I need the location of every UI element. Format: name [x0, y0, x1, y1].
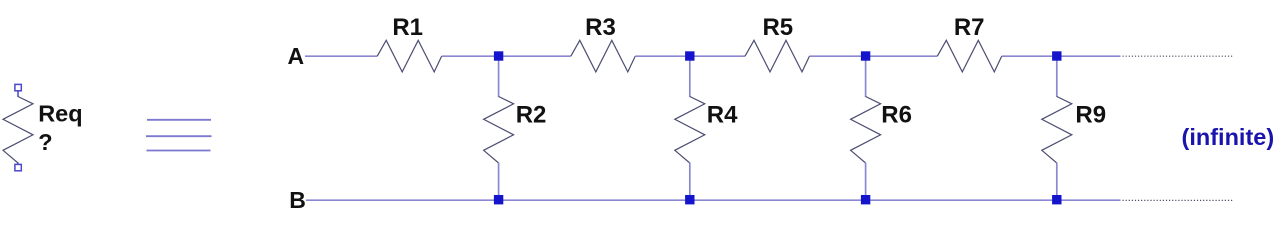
junction node 1 top	[494, 51, 503, 60]
svg-text:Req: Req	[38, 100, 82, 126]
wire R7 past node 4	[1002, 55, 1121, 57]
junction node 1 bottom	[494, 195, 503, 204]
wire R1 to R3 through node 1	[442, 55, 571, 57]
resistor R3	[571, 40, 635, 72]
resistor R5	[745, 40, 809, 72]
junction node 3 bottom	[861, 195, 870, 204]
wire R9 bottom lead	[1056, 163, 1058, 201]
wire R3 to R5 through node 2	[635, 55, 745, 57]
wire R6 bottom lead	[865, 163, 867, 201]
svg-text:R6: R6	[881, 101, 912, 128]
terminal pin top of Req	[15, 84, 21, 90]
svg-text:?: ?	[38, 129, 52, 155]
wire bottom rail B	[306, 199, 1121, 201]
resistor R6	[851, 97, 881, 164]
resistor R9	[1042, 97, 1072, 164]
svg-text:R3: R3	[585, 14, 616, 41]
wire dotted continuation bottom rail	[1123, 199, 1234, 201]
svg-text:R9: R9	[1075, 101, 1106, 128]
wire R5 to R7 through node 3	[809, 55, 937, 57]
resistor R2	[484, 97, 514, 164]
wire R4 bottom lead	[689, 163, 691, 201]
junction node 3 top	[861, 51, 870, 60]
svg-text:R1: R1	[392, 14, 423, 41]
resistor Req	[3, 97, 33, 164]
resistor R4	[675, 97, 705, 164]
wire node to R9 top lead	[1056, 56, 1058, 97]
junction node 4 bottom	[1052, 195, 1061, 204]
junction node 2 bottom	[685, 195, 694, 204]
wire node to R4 top lead	[689, 56, 691, 97]
svg-text:R5: R5	[762, 14, 793, 41]
junction node 2 top	[685, 51, 694, 60]
wire node to R6 top lead	[865, 56, 867, 97]
wire R2 bottom lead	[498, 163, 500, 201]
wire A to R1	[305, 55, 377, 57]
svg-text:R7: R7	[954, 14, 985, 41]
wire dotted continuation top rail	[1123, 55, 1234, 57]
svg-text:R4: R4	[707, 101, 738, 128]
wire Req top stub	[17, 91, 19, 98]
svg-text:(infinite): (infinite)	[1182, 124, 1275, 150]
svg-text:B: B	[289, 187, 306, 213]
resistor R7	[937, 40, 1001, 72]
wire Req bottom stub	[17, 163, 19, 166]
svg-text:R2: R2	[516, 101, 547, 128]
terminal pin bottom of Req	[15, 164, 21, 170]
resistor R1	[377, 40, 441, 72]
equivalence symbol (three-bar equals)	[146, 120, 212, 151]
junction node 4 top	[1052, 51, 1061, 60]
svg-text:A: A	[288, 43, 305, 69]
wire node to R2 top lead	[498, 56, 500, 97]
